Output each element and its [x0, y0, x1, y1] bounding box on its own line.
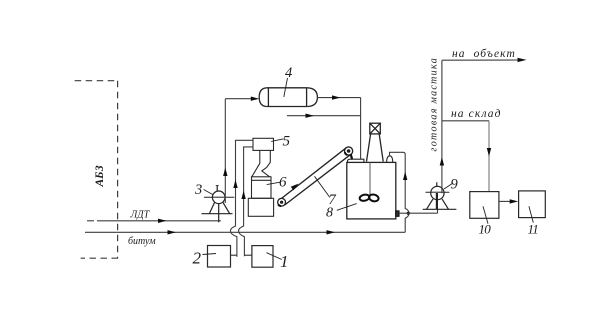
arrow on bottom line [306, 114, 315, 118]
svg-text:10: 10 [479, 222, 492, 237]
box 11 [519, 191, 546, 218]
mixer drive tower [367, 123, 384, 161]
wire riser from box2 to hopper5 [230, 140, 253, 257]
wire pump9 discharge up [442, 60, 519, 193]
hopper neck [252, 150, 260, 176]
svg-text:битум: битум [128, 236, 156, 247]
pump P9 legs and base [427, 199, 434, 209]
mixer propeller [359, 194, 379, 203]
svg-text:8: 8 [326, 206, 333, 221]
arrow up on discharge [440, 157, 444, 166]
arrow on belt [291, 184, 299, 191]
arrow on битум line 2 [327, 230, 336, 234]
mixer bottom outlet stub [396, 211, 399, 216]
svg-text:5: 5 [283, 134, 291, 150]
box 10 [470, 192, 499, 219]
wire branch to storage [442, 121, 489, 192]
arrow down to box10 [487, 148, 491, 157]
svg-text:2: 2 [193, 249, 202, 268]
svg-text:3: 3 [194, 182, 202, 198]
wire битум riser to mixer top [390, 152, 410, 232]
tank T4 horizontal cylinder [259, 88, 317, 107]
conveyor upper roller [345, 147, 353, 155]
svg-text:1: 1 [280, 252, 289, 271]
arrow on outlet [332, 95, 341, 99]
svg-text:АБЗ: АБЗ [94, 165, 106, 187]
conveyor lower roller [278, 198, 286, 206]
box 2 stub [231, 254, 237, 256]
svg-text:ЛДТ: ЛДТ [130, 210, 151, 221]
mixer left inlet ledge [348, 159, 364, 162]
wire box10 to box11 [499, 200, 512, 202]
arrow up on riser [223, 168, 227, 177]
wire битум supply line [85, 231, 405, 233]
wire riser pump3 to tank4 [225, 99, 253, 203]
arrow на объект [518, 58, 527, 62]
arrow up riser B [241, 191, 245, 200]
wire tank4 outlet to mixer [317, 98, 360, 160]
pump P9 [423, 182, 457, 209]
pump P3 legs and base [209, 202, 214, 213]
pump P3 suction drop to ЛДТ [218, 204, 220, 223]
hopper H5 top box [248, 138, 273, 216]
arrow into box11 [510, 199, 519, 203]
svg-text:на объект: на объект [452, 48, 516, 60]
mixer M8 tank [347, 162, 396, 219]
arrow on ЛДТ line [158, 219, 167, 223]
svg-text:9: 9 [451, 177, 459, 193]
arrow into tank4 [251, 97, 259, 101]
arrow up битум riser [403, 172, 407, 181]
svg-text:6: 6 [279, 175, 287, 191]
svg-text:на склад: на склад [451, 108, 502, 120]
mixer agitator shaft [369, 162, 371, 198]
dashed boundary АБЗ plant [75, 81, 118, 259]
pump P3 top stub [216, 186, 218, 192]
mixer right nozzle dome [387, 156, 393, 163]
arrow up riser A [233, 180, 237, 189]
pump P3 circle [202, 186, 235, 223]
chute bottom / box6 [252, 177, 272, 199]
wire riser from box1 to hopper5 [239, 147, 254, 256]
box 2 [208, 246, 231, 268]
pump P9 top stub [436, 182, 438, 187]
wire ЛДТ supply line [87, 220, 221, 222]
arrow on битум line 1 [168, 230, 177, 234]
box 1 stub [244, 254, 252, 256]
svg-text:готовая мастика: готовая мастика [429, 57, 440, 152]
box 1 [252, 246, 273, 268]
wire mixer outlet to pump9 [399, 212, 438, 214]
svg-text:4: 4 [285, 65, 292, 81]
bottom bin [248, 198, 273, 216]
wire tank4 bottom line to mixer [287, 115, 361, 117]
conveyor 7 belt [278, 147, 353, 206]
svg-text:11: 11 [528, 222, 539, 237]
